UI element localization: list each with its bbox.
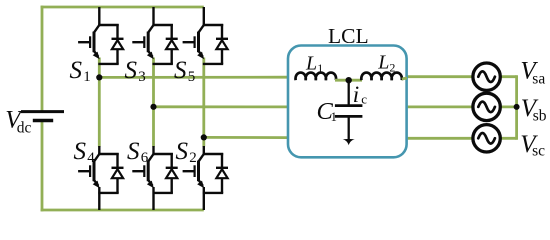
label ic bbox=[353, 82, 367, 107]
wire: S1 collector stub from top rail bbox=[98, 7, 100, 26]
wire: S2 collector stub bbox=[203, 146, 205, 155]
inductor L1 bbox=[296, 73, 337, 81]
svg-text:2: 2 bbox=[189, 150, 197, 166]
wire: bottom DC rail bbox=[41, 209, 204, 212]
label S2 bbox=[176, 138, 197, 166]
label L2 bbox=[377, 52, 395, 75]
LCL filter block outline bbox=[288, 46, 407, 158]
svg-text:sa: sa bbox=[532, 70, 545, 87]
transistor S5 bbox=[183, 25, 224, 59]
svg-text:L: L bbox=[305, 52, 317, 74]
AC source Vsa bbox=[473, 63, 500, 90]
wire: source a to neutral bus bbox=[500, 75, 517, 78]
wire: S5 collector stub from top rail bbox=[203, 7, 205, 26]
wire: S6 emitter to bottom rail bbox=[152, 187, 154, 210]
battery Vdc negative plate bbox=[33, 119, 53, 122]
svg-text:6: 6 bbox=[141, 150, 149, 166]
svg-text:S: S bbox=[125, 57, 138, 84]
AC source Vsc bbox=[473, 125, 500, 152]
transistor S1 bbox=[78, 25, 119, 59]
battery Vdc positive plate bbox=[21, 110, 64, 113]
node: neutral bus junction bbox=[514, 104, 520, 110]
capacitor C1 bottom plate bbox=[335, 115, 363, 118]
svg-text:LCL: LCL bbox=[328, 24, 369, 48]
wire: left DC link upper (to battery +) bbox=[41, 6, 44, 111]
wire: left DC link lower (from battery -) bbox=[41, 122, 44, 212]
wire: phase b to LCL bbox=[154, 105, 288, 108]
svg-text:S: S bbox=[176, 138, 189, 165]
diode D2 (antiparallel with S2) bbox=[203, 153, 228, 193]
wire: phase-b leg midpoint vertical bbox=[152, 58, 155, 147]
svg-text:dc: dc bbox=[17, 119, 32, 136]
svg-text:5: 5 bbox=[188, 69, 196, 85]
svg-text:2: 2 bbox=[389, 61, 395, 75]
svg-text:S: S bbox=[70, 57, 83, 84]
transistor S3 bbox=[132, 25, 173, 59]
diode D1 (antiparallel with S1) bbox=[98, 24, 123, 64]
svg-text:S: S bbox=[174, 57, 187, 84]
svg-text:1: 1 bbox=[317, 61, 323, 75]
transistor S6 bbox=[132, 154, 173, 188]
label S4 bbox=[74, 138, 96, 166]
label Vsa bbox=[520, 58, 545, 88]
node: phase a midpoint junction bbox=[96, 74, 102, 80]
label Vsc bbox=[520, 131, 545, 159]
wire: phase c to LCL bbox=[204, 136, 287, 139]
node: phase b midpoint junction bbox=[150, 104, 156, 110]
node: phase c midpoint junction bbox=[201, 134, 207, 140]
wire: phase-a leg midpoint vertical bbox=[98, 58, 101, 147]
wire: LCL midpoint bbox=[335, 79, 362, 82]
svg-text:1: 1 bbox=[331, 110, 337, 124]
wire: phase a to LCL bbox=[99, 76, 287, 79]
wire: S3 collector stub from top rail bbox=[152, 7, 154, 26]
diode D6 (antiparallel with S6) bbox=[153, 153, 178, 193]
label Vsb bbox=[521, 95, 547, 125]
transistor S2 bbox=[183, 154, 224, 188]
label L1 bbox=[305, 52, 323, 75]
label C1 bbox=[317, 98, 337, 125]
capacitor C1 top plate bbox=[335, 104, 363, 107]
svg-text:c: c bbox=[361, 91, 367, 106]
svg-text:1: 1 bbox=[83, 69, 91, 85]
svg-text:3: 3 bbox=[138, 69, 146, 85]
svg-text:L: L bbox=[377, 52, 389, 74]
diode D3 (antiparallel with S3) bbox=[153, 24, 178, 64]
wire: S6 collector stub bbox=[152, 146, 154, 155]
label S6 bbox=[127, 138, 149, 166]
wire: phase-c leg midpoint vertical bbox=[202, 58, 205, 147]
svg-text:sb: sb bbox=[533, 108, 547, 125]
label Vdc bbox=[5, 106, 31, 136]
wire: source c to neutral bus bbox=[500, 137, 517, 140]
wire: S4 collector stub bbox=[98, 146, 100, 155]
wire: S4 emitter to bottom rail bbox=[98, 187, 100, 210]
diode D4 (antiparallel with S4) bbox=[98, 153, 123, 193]
transistor S4 bbox=[78, 154, 119, 188]
inductor L2 bbox=[361, 73, 402, 81]
label S1 bbox=[70, 57, 91, 85]
wire: L2 to box edge bbox=[402, 78, 407, 79]
svg-text:S: S bbox=[74, 138, 87, 165]
wire: neutral bus vertical bbox=[515, 75, 518, 139]
node: LCL capacitor tap bbox=[346, 77, 352, 83]
label S5 bbox=[174, 57, 195, 85]
svg-text:sc: sc bbox=[532, 142, 545, 159]
wire: capacitor branch vertical bbox=[348, 80, 350, 104]
wire: top DC rail bbox=[41, 6, 204, 9]
wire: phase b LCL to grid source bbox=[408, 106, 474, 109]
wire: capacitor to ground bbox=[348, 116, 350, 141]
diode D5 (antiparallel with S5) bbox=[203, 24, 228, 64]
wire: phase a LCL to grid source bbox=[408, 75, 474, 78]
wire: phase c LCL to grid source bbox=[408, 137, 474, 140]
wire: source b to neutral bus bbox=[500, 106, 517, 109]
ground (arrow) bbox=[343, 139, 355, 145]
wire: S2 emitter to bottom rail bbox=[203, 187, 205, 210]
svg-text:S: S bbox=[127, 138, 140, 165]
svg-text:i: i bbox=[353, 82, 359, 107]
svg-text:4: 4 bbox=[87, 150, 95, 166]
AC source Vsb bbox=[473, 93, 500, 120]
label S3 bbox=[125, 57, 146, 85]
